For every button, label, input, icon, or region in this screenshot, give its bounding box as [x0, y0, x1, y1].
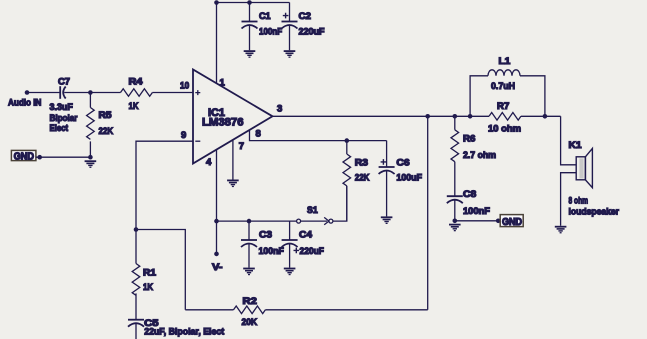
svg-text:GND: GND: [502, 217, 522, 228]
capacitor C4: [282, 221, 324, 268]
svg-text:C8: C8: [463, 189, 476, 200]
pin 7 wire: [232, 140, 234, 180]
svg-text:C1: C1: [259, 11, 271, 22]
svg-text:7: 7: [239, 141, 244, 152]
inductor L1: [470, 56, 545, 116]
node feedback junction R1: [134, 227, 139, 232]
svg-text:C3: C3: [259, 230, 272, 241]
capacitor C8: [447, 189, 490, 221]
svg-text:R1: R1: [143, 268, 157, 279]
node V+ junction at C1: [247, 0, 252, 5]
svg-text:1K: 1K: [143, 282, 153, 293]
resistor R7: [488, 101, 521, 135]
resistor R4: [121, 77, 153, 113]
node V- junction pin4: [214, 219, 219, 224]
resistor R1: [132, 230, 157, 320]
node R5 bottom junction: [88, 155, 93, 160]
node Audio IN terminal: [25, 90, 30, 95]
svg-text:22K: 22K: [99, 126, 114, 137]
node output junction feedback: [425, 114, 430, 119]
svg-text:K1: K1: [569, 140, 583, 151]
wire R2 right feedback vertical to output: [427, 116, 429, 309]
svg-text:R4: R4: [129, 77, 144, 88]
svg-text:9: 9: [181, 130, 186, 141]
node GND dot left: [37, 155, 42, 160]
svg-text:LM3876: LM3876: [202, 117, 244, 129]
GND label box right: [500, 215, 523, 228]
svg-text:100nF: 100nF: [259, 246, 284, 257]
ground below C2: [284, 50, 296, 58]
svg-text:220uF: 220uF: [299, 27, 325, 38]
svg-text:22K: 22K: [355, 173, 370, 184]
svg-text:R3: R3: [355, 158, 368, 169]
resistor R5: [87, 93, 114, 158]
svg-text:R7: R7: [497, 101, 509, 112]
svg-text:C2: C2: [299, 11, 312, 22]
GND label box left: [11, 150, 36, 162]
svg-text:1K: 1K: [129, 101, 139, 112]
resistor R2: [185, 296, 427, 328]
svg-text:C6: C6: [396, 158, 409, 169]
ground below C3: [243, 268, 255, 276]
capacitor C5: [128, 318, 225, 339]
wire pin 8 rail: [250, 130, 387, 141]
wire C8 to GND label: [455, 220, 501, 222]
capacitor C7: [50, 77, 78, 135]
svg-text:10 ohm: 10 ohm: [488, 124, 521, 135]
ground below C1: [244, 50, 256, 58]
svg-text:8 ohm: 8 ohm: [569, 196, 589, 207]
svg-text:4: 4: [206, 157, 212, 168]
svg-text:220uF: 220uF: [300, 246, 325, 257]
svg-text:L1: L1: [499, 56, 512, 67]
ground below C6: [381, 216, 393, 224]
loudspeaker K1: [569, 140, 620, 218]
node output junction R6: [453, 114, 458, 119]
switch S1: [297, 205, 333, 225]
wire feedback junction to R2 left: [136, 230, 185, 310]
wire S1 to R3 bottom: [333, 186, 347, 221]
svg-text:100nF: 100nF: [259, 27, 282, 38]
capacitor C3: [241, 221, 284, 268]
svg-text:GND: GND: [14, 151, 34, 162]
node output junction L1 left: [468, 114, 473, 119]
node V- rail junction at C3: [247, 219, 252, 224]
svg-text:3.3uF: 3.3uF: [50, 102, 73, 113]
wire pin 9 to feedback: [136, 141, 193, 229]
svg-text:R5: R5: [99, 110, 113, 121]
wire R7 right to speaker corner: [521, 115, 561, 117]
ground below C8: [449, 224, 461, 232]
wire V- stub: [216, 221, 218, 254]
wire input to C7: [27, 92, 60, 94]
ground below pin 7: [227, 180, 239, 188]
svg-text:3: 3: [277, 104, 282, 115]
node input junction at R5: [88, 90, 93, 95]
svg-text:C7: C7: [58, 77, 70, 88]
svg-text:0.7uH: 0.7uH: [491, 81, 515, 92]
node V+ junction at pin1: [214, 0, 219, 5]
svg-text:8: 8: [256, 129, 261, 140]
svg-text:loudspeaker: loudspeaker: [569, 207, 620, 218]
svg-text:Elect: Elect: [50, 123, 69, 134]
op-amp U1 (IC1 LM3876): [193, 70, 273, 164]
svg-text:V-: V-: [212, 262, 222, 273]
wire R4 to pin 10: [152, 92, 193, 94]
svg-text:R2: R2: [243, 296, 257, 307]
wire V- rail: [217, 220, 297, 222]
svg-text:20K: 20K: [242, 317, 258, 328]
pin 4 wire: [216, 150, 218, 222]
node GND dot right: [496, 219, 501, 224]
resistor R3: [343, 141, 370, 222]
wire speaker bottom to ground: [561, 173, 577, 226]
ground below R5: [85, 160, 97, 168]
node pin8 rail junction at R3: [345, 138, 350, 143]
capacitor C1: [242, 3, 283, 51]
wire GND to R5 bottom: [36, 156, 91, 158]
svg-text:22uF, Bipolar, Elect: 22uF, Bipolar, Elect: [144, 327, 225, 338]
svg-text:2.7 ohm: 2.7 ohm: [463, 150, 496, 161]
resistor R6: [451, 116, 496, 196]
capacitor C2: [282, 3, 325, 51]
node C8 bottom junction: [453, 219, 458, 224]
capacitor C6: [379, 141, 423, 217]
svg-text:100nF: 100nF: [463, 206, 490, 217]
svg-text:10: 10: [180, 81, 189, 92]
ground below speaker: [555, 226, 567, 234]
wire output corner to speaker: [561, 116, 577, 165]
svg-text:S1: S1: [307, 205, 318, 216]
node V- terminal: [214, 252, 219, 257]
wire pin 1 vertical: [216, 3, 218, 84]
wire output pin 3: [273, 115, 490, 117]
svg-text:R6: R6: [463, 134, 475, 145]
svg-text:100uF: 100uF: [396, 173, 422, 184]
wire C7 to R4: [64, 92, 120, 94]
node output junction L1 right: [543, 114, 548, 119]
ground below C4: [284, 268, 296, 276]
svg-text:Audio IN: Audio IN: [8, 98, 42, 109]
svg-text:C4: C4: [299, 230, 313, 241]
wire V+ top rail: [217, 2, 290, 4]
